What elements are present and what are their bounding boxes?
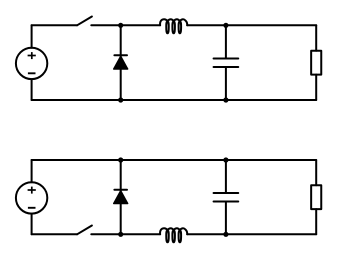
inductor <box>160 19 187 33</box>
wire <box>31 79 33 100</box>
switch <box>77 226 92 235</box>
wire <box>32 99 317 101</box>
wire <box>32 233 78 235</box>
node <box>118 157 123 162</box>
resistor <box>311 185 321 209</box>
node <box>223 157 228 162</box>
voltage source <box>16 48 47 79</box>
diode <box>114 55 128 69</box>
wire <box>120 69 122 100</box>
wire <box>32 159 317 161</box>
wire <box>226 233 316 235</box>
wire <box>225 202 227 235</box>
wire <box>315 75 317 100</box>
inductor <box>160 228 187 242</box>
wire <box>225 67 227 100</box>
wire <box>91 233 120 235</box>
wire <box>91 24 120 26</box>
resistor <box>311 51 321 75</box>
node <box>223 23 228 28</box>
wire <box>225 160 227 193</box>
switch <box>77 17 92 26</box>
wire <box>31 160 33 182</box>
wire <box>31 25 33 47</box>
node <box>223 232 228 237</box>
wire <box>120 160 122 191</box>
wire <box>120 204 122 235</box>
wire <box>121 233 160 235</box>
wire <box>32 24 78 26</box>
wire <box>315 209 317 234</box>
capacitor <box>214 58 239 67</box>
wire <box>120 25 122 56</box>
top circuit: buck converter <box>16 17 321 103</box>
wire <box>315 25 317 50</box>
node <box>118 23 123 28</box>
bottom circuit: buck converter, switch and inductor in return path <box>16 157 321 242</box>
wire <box>315 160 317 185</box>
wire <box>31 214 33 235</box>
node <box>118 232 123 237</box>
node <box>118 97 123 102</box>
voltage source <box>16 182 47 213</box>
wire <box>187 24 226 26</box>
wire <box>121 24 160 26</box>
diode <box>114 190 128 204</box>
wire <box>225 25 227 58</box>
capacitor <box>214 193 239 202</box>
node <box>223 97 228 102</box>
wire <box>226 24 316 26</box>
wire <box>187 233 226 235</box>
